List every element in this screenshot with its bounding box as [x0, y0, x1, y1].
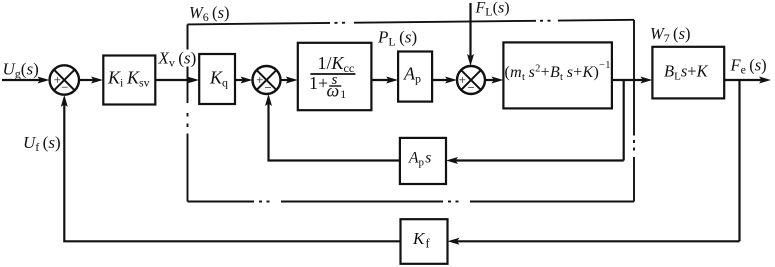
wire Kf feedback left segment to sum1	[64, 104, 400, 241]
arrowhead FL into sum3 top	[467, 54, 474, 66]
svg-text:K f: K f	[412, 229, 430, 251]
arrowhead into block BL	[640, 77, 652, 84]
arrowhead into sum1 bottom	[61, 95, 68, 107]
phantom boundary W6 top edge (long dash, double dots)	[188, 23, 331, 25]
svg-text:Ki Ksv: Ki Ksv	[107, 68, 150, 90]
wire block BL to output Fe	[724, 79, 763, 81]
svg-text:+: +	[459, 72, 466, 87]
svg-text:BLs+K: BLs+K	[664, 62, 709, 83]
block Kf	[401, 219, 448, 264]
svg-text:PL (s): PL (s)	[377, 28, 417, 49]
wire Aps feedback right segment	[455, 159, 624, 161]
wire FL input down to sum3	[469, 3, 471, 57]
svg-text:−: −	[264, 80, 271, 95]
svg-text:ω 1: ω 1	[327, 81, 347, 102]
arrowhead into sum1	[38, 77, 50, 84]
wire Ap to sum3	[432, 79, 449, 81]
summing junction S1	[50, 65, 79, 94]
wire block KiKsv to Kq with node Xv	[156, 79, 191, 81]
svg-text:W7 (s): W7 (s)	[650, 24, 690, 45]
svg-text:−: −	[61, 80, 68, 95]
summing junction S3	[457, 66, 485, 94]
svg-text:Ap s: Ap s	[408, 150, 431, 169]
block Ap	[398, 52, 432, 102]
wire input Ug	[2, 79, 40, 81]
wire output tap down to Kf feedback	[738, 80, 740, 241]
svg-text:−: −	[467, 80, 474, 95]
phantom boundary W6 left tap (solid above wire)	[187, 24, 189, 49]
arrowhead output Fe	[759, 77, 771, 84]
block 1/Kcc over 1+s/w1	[298, 43, 372, 110]
arrowhead into block M	[491, 77, 503, 84]
svg-text:(mt s2+Bt s+K)−1: (mt s2+Bt s+K)−1	[505, 60, 611, 83]
fraction bar of block W1	[310, 73, 355, 75]
arrowhead into block Kf	[448, 238, 460, 245]
wire block W1 to Ap, node PL	[371, 79, 389, 81]
svg-text:1+: 1+	[309, 73, 328, 93]
wire block M to block BL	[612, 79, 645, 81]
wire sum1 to block KiKsv	[79, 79, 94, 81]
wire Kq to sum2	[235, 79, 244, 81]
wire Aps feedback left segment to sum2	[269, 103, 401, 161]
block KiKsv	[103, 56, 155, 105]
arrowhead into sum2 bottom	[265, 94, 272, 106]
svg-text:Fe (s): Fe (s)	[730, 56, 767, 77]
svg-text:Ug(s): Ug(s)	[3, 60, 39, 81]
nested fraction bar	[329, 85, 341, 87]
svg-text:FL(s): FL(s)	[475, 0, 510, 19]
wire sum2 to block W1	[281, 79, 291, 81]
wire tap down from main line to Aps feedback	[623, 80, 625, 161]
wire sum3 to block M	[485, 79, 495, 81]
block Kq	[199, 54, 235, 104]
svg-text:Ap: Ap	[403, 64, 421, 86]
phantom boundary W6 left edge below node (dash-dot)	[187, 81, 189, 103]
svg-text:+: +	[54, 72, 61, 87]
arrowhead into sum2	[241, 77, 253, 84]
svg-text:+: +	[256, 72, 263, 87]
svg-text:Xv (s): Xv (s)	[158, 49, 197, 70]
arrowhead into block Aps	[446, 157, 458, 164]
block BLs+K	[652, 47, 724, 99]
summing junction S2	[253, 66, 281, 94]
arrowhead into block KiKsv	[91, 77, 103, 84]
svg-text:Uf (s): Uf (s)	[23, 133, 61, 154]
svg-text:W6 (s): W6 (s)	[189, 3, 229, 24]
arrowhead into block Ap	[386, 77, 398, 84]
arrowhead into block W1	[286, 77, 298, 84]
phantom boundary W6 bottom edge (long dash, double dots)	[470, 201, 634, 203]
block Aps	[400, 138, 446, 184]
phantom boundary W6 right edge (dash-dot)	[633, 20, 635, 136]
arrowhead into block Kq	[187, 77, 199, 84]
wire Kf feedback right segment	[456, 240, 740, 242]
block M inverse	[503, 42, 612, 108]
svg-text:Kq: Kq	[209, 68, 228, 90]
arrowhead into sum3	[445, 77, 457, 84]
